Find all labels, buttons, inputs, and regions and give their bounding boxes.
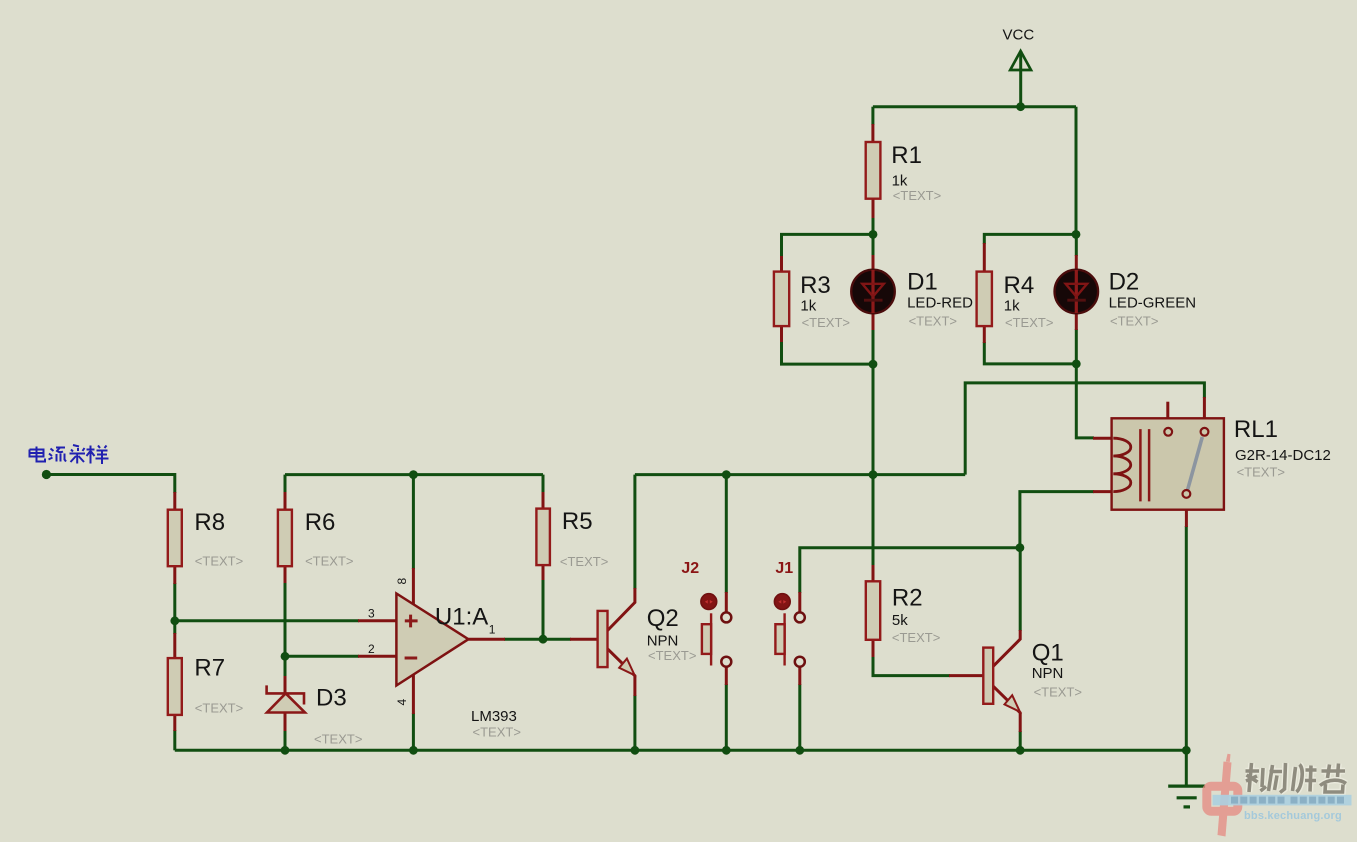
wire node to R3 top bbox=[782, 234, 874, 257]
node pin2 D3 bbox=[281, 652, 290, 661]
watermark logo 中 bbox=[1207, 754, 1238, 837]
wire input rail bbox=[46, 475, 174, 494]
node input terminal bbox=[42, 470, 51, 479]
wire J1 top rail bbox=[800, 548, 1020, 593]
wire relay common down bbox=[1185, 526, 1188, 750]
node D1 bottom bbox=[869, 360, 878, 369]
resistor R1 bbox=[866, 142, 942, 203]
pin R8 top bbox=[173, 492, 176, 510]
wire J2 top bbox=[725, 475, 728, 593]
svg-text:3: 3 bbox=[368, 606, 375, 620]
node J1 rail bottom bbox=[795, 746, 804, 755]
pin R4 bottom bbox=[983, 326, 986, 343]
pin R2 bottom bbox=[872, 640, 875, 657]
pin R3 bottom bbox=[780, 326, 783, 342]
watermark text 科创论坛 bbox=[1246, 763, 1347, 793]
svg-text:4: 4 bbox=[395, 699, 409, 706]
wire node3 to relay coil top bbox=[1076, 364, 1094, 438]
svg-text:Q1: Q1 bbox=[1032, 640, 1064, 667]
node opamp out bbox=[539, 635, 548, 644]
svg-text:R5: R5 bbox=[562, 508, 593, 535]
wire R8 bottom to node bbox=[173, 583, 176, 634]
wire R6 top bbox=[284, 475, 287, 493]
wire pin2 bbox=[285, 655, 359, 658]
svg-text:1k: 1k bbox=[1004, 298, 1020, 315]
wire R5 bottom bbox=[542, 579, 545, 639]
node pin8 rail bbox=[409, 470, 418, 479]
svg-text:J2: J2 bbox=[681, 560, 699, 577]
wire J1 bottom bbox=[798, 684, 801, 750]
wire right branch down to R4/D2 junction bbox=[1075, 107, 1078, 235]
power symbol VCC bbox=[1010, 51, 1031, 70]
node D3 ground rail bbox=[281, 746, 290, 755]
wire Q2 emitter down bbox=[633, 695, 636, 750]
svg-text:G2R-14-DC12: G2R-14-DC12 bbox=[1235, 447, 1331, 464]
wire R1 bottom to node bbox=[872, 217, 875, 256]
ground bbox=[1168, 786, 1205, 807]
svg-text:R1: R1 bbox=[891, 142, 922, 169]
svg-text:D1: D1 bbox=[907, 268, 938, 295]
pin opamp output bbox=[468, 638, 505, 641]
svg-text:R4: R4 bbox=[1004, 272, 1035, 299]
pin D1 bottom bbox=[872, 313, 875, 330]
pin Q1 collector bbox=[992, 630, 1020, 667]
svg-text:<TEXT>: <TEXT> bbox=[1110, 314, 1158, 329]
pin Q2 emitter bbox=[608, 649, 635, 696]
wire opamp pin8 bbox=[412, 475, 415, 569]
pin D2 top bbox=[1075, 255, 1078, 270]
svg-text:R3: R3 bbox=[800, 272, 831, 299]
pin Q1 base bbox=[949, 674, 983, 677]
pin relay coil top bbox=[1093, 437, 1113, 440]
pin R8 bottom bbox=[173, 566, 176, 584]
pin opamp 4 bbox=[412, 675, 415, 714]
node J2 rail bbox=[722, 470, 731, 479]
pin D2 bottom bbox=[1075, 313, 1078, 330]
pin relay common bbox=[1185, 498, 1188, 527]
wire pin3 bbox=[175, 619, 359, 622]
pin R3 top bbox=[780, 256, 783, 272]
node label 电流采样 bbox=[30, 445, 109, 464]
node R4 top bbox=[1072, 230, 1081, 239]
wire relay NO rail bbox=[965, 383, 1204, 475]
LED D2 bbox=[1055, 268, 1197, 328]
wire J2 bottom bbox=[725, 684, 728, 750]
resistor R8 bbox=[168, 509, 243, 569]
zener diode D3 bbox=[267, 685, 363, 747]
pin J2 contact bottom bbox=[725, 667, 728, 685]
pin R2 top bbox=[872, 565, 875, 581]
node Q2 emitter rail bbox=[631, 746, 640, 755]
wire node to D2 top bbox=[1075, 234, 1078, 256]
wire ground stem bbox=[1185, 750, 1188, 786]
svg-text:R7: R7 bbox=[194, 655, 225, 682]
svg-text:<TEXT>: <TEXT> bbox=[1005, 315, 1053, 330]
svg-text:RL1: RL1 bbox=[1234, 416, 1278, 443]
pin R5 bottom bbox=[542, 565, 545, 580]
pin J1 contact bottom bbox=[798, 667, 801, 685]
pin Q2 base bbox=[570, 638, 598, 641]
svg-text:<TEXT>: <TEXT> bbox=[802, 315, 850, 330]
pin relay coil bottom bbox=[1093, 490, 1113, 493]
relay RL1 bbox=[1112, 416, 1331, 510]
wire left rail bbox=[285, 473, 543, 476]
wire Q2 collector bbox=[633, 475, 636, 589]
svg-text:J1: J1 bbox=[775, 560, 793, 577]
pin opamp 3 bbox=[358, 619, 396, 622]
pin R4 top bbox=[983, 243, 986, 272]
svg-text:D2: D2 bbox=[1109, 268, 1140, 295]
wire bottom rail bbox=[175, 749, 1187, 752]
transistor Q2 bbox=[598, 605, 697, 675]
wire Q1 emitter down bbox=[1019, 731, 1022, 750]
wire R1 top bbox=[871, 107, 874, 125]
svg-text:NPN: NPN bbox=[647, 632, 679, 649]
resistor R2 bbox=[866, 581, 941, 645]
pin R1 bottom bbox=[872, 199, 875, 218]
wire R3 bottom to node2 bbox=[782, 341, 874, 364]
svg-text:Q2: Q2 bbox=[647, 605, 679, 632]
transistor Q1 bbox=[983, 640, 1082, 712]
wire VCC stem bbox=[1019, 51, 1022, 107]
wire D2 bottom to node3 bbox=[1075, 329, 1078, 364]
node ground rail bbox=[1182, 746, 1191, 755]
resistor R5 bbox=[536, 508, 608, 569]
svg-text:LED-GREEN: LED-GREEN bbox=[1109, 294, 1197, 311]
svg-text:<TEXT>: <TEXT> bbox=[314, 732, 362, 747]
svg-text:<TEXT>: <TEXT> bbox=[560, 554, 608, 569]
svg-text:<TEXT>: <TEXT> bbox=[1034, 685, 1082, 700]
svg-text:1k: 1k bbox=[800, 298, 816, 315]
pin J1 contact top bbox=[798, 592, 801, 612]
pin J2 contact top bbox=[725, 592, 728, 612]
op-amp U1:A bbox=[368, 578, 521, 740]
resistor R4 bbox=[977, 272, 1054, 330]
svg-text:1: 1 bbox=[489, 623, 496, 637]
node pin4 rail bbox=[409, 746, 418, 755]
svg-text:8: 8 bbox=[395, 578, 409, 585]
wire R4 bottom to node3 bbox=[984, 342, 1076, 364]
svg-text:<TEXT>: <TEXT> bbox=[893, 188, 941, 203]
LED D1 bbox=[851, 268, 973, 328]
svg-text:<TEXT>: <TEXT> bbox=[195, 554, 243, 569]
resistor R6 bbox=[278, 509, 354, 569]
pin opamp 2 bbox=[358, 655, 396, 658]
wire node2 down to rail bbox=[872, 364, 875, 566]
svg-text:R6: R6 bbox=[305, 509, 336, 536]
wire D1 bottom to node2 bbox=[872, 329, 875, 364]
wire R6 bottom to D3 bbox=[284, 582, 287, 677]
pin R6 bottom bbox=[284, 566, 287, 583]
wire top rail VCC to branches bbox=[873, 105, 1076, 108]
wire R2 bottom to Q1 base bbox=[873, 656, 950, 676]
svg-text:<TEXT>: <TEXT> bbox=[909, 314, 957, 329]
pin R7 bottom bbox=[173, 715, 176, 731]
node R2 rail bbox=[869, 470, 878, 479]
svg-text:LM393: LM393 bbox=[471, 708, 517, 725]
wire opamp pin4 bbox=[412, 713, 415, 750]
pin D3 bottom bbox=[284, 713, 287, 732]
wire R5 top bbox=[542, 475, 545, 493]
pin opamp 8 bbox=[412, 568, 415, 604]
node VCC rail bbox=[1016, 102, 1025, 111]
svg-text:D3: D3 bbox=[316, 685, 347, 712]
node J1 Q1 bbox=[1016, 543, 1025, 552]
node J2 rail bottom bbox=[722, 746, 731, 755]
svg-text:LED-RED: LED-RED bbox=[907, 294, 973, 311]
wire opamp output bbox=[504, 638, 571, 641]
watermark blue band bbox=[1213, 795, 1352, 806]
pin relay NO bbox=[1203, 397, 1206, 428]
node R1 bottom bbox=[869, 230, 878, 239]
svg-text:<TEXT>: <TEXT> bbox=[305, 554, 353, 569]
node D2 bottom bbox=[1072, 360, 1081, 369]
svg-text:bbs.kechuang.org: bbs.kechuang.org bbox=[1244, 810, 1342, 822]
svg-text:<TEXT>: <TEXT> bbox=[195, 701, 243, 716]
node R8 R7 divider bbox=[170, 616, 179, 625]
svg-text:R2: R2 bbox=[892, 585, 923, 612]
pin R7 top bbox=[173, 633, 176, 658]
wire mid rail bbox=[635, 473, 965, 476]
svg-text:NPN: NPN bbox=[1032, 665, 1064, 682]
node Q1 emitter rail bbox=[1016, 746, 1025, 755]
svg-text:<TEXT>: <TEXT> bbox=[892, 630, 940, 645]
pin R1 top bbox=[871, 124, 874, 142]
wire Q1 collector bbox=[1019, 548, 1022, 631]
svg-text:<TEXT>: <TEXT> bbox=[1237, 465, 1285, 480]
push button J1 bbox=[774, 560, 804, 667]
svg-text:U1:A: U1:A bbox=[435, 604, 488, 631]
svg-text:<TEXT>: <TEXT> bbox=[648, 648, 696, 663]
resistor R3 bbox=[774, 272, 850, 330]
pin Q1 emitter bbox=[992, 685, 1020, 732]
pin Q2 collector bbox=[608, 588, 635, 631]
wire R7 bottom bbox=[173, 730, 176, 750]
pin relay NC bbox=[1166, 402, 1169, 428]
svg-text:R8: R8 bbox=[194, 509, 225, 536]
pin D1 top bbox=[872, 255, 875, 270]
pin R5 top bbox=[542, 492, 545, 509]
wire R2 top bbox=[872, 475, 875, 566]
pin D3 top bbox=[284, 676, 287, 693]
svg-text:5k: 5k bbox=[892, 612, 908, 629]
pin R6 top bbox=[284, 492, 287, 510]
wire D3 bottom bbox=[284, 730, 287, 750]
svg-text:2: 2 bbox=[368, 642, 375, 656]
wire relay coil bottom bbox=[1020, 492, 1094, 548]
push button J2 bbox=[681, 560, 731, 667]
svg-text:VCC: VCC bbox=[1003, 27, 1035, 44]
resistor R7 bbox=[168, 655, 243, 716]
wire node to R4 top bbox=[984, 234, 1076, 244]
svg-text:<TEXT>: <TEXT> bbox=[473, 724, 521, 739]
